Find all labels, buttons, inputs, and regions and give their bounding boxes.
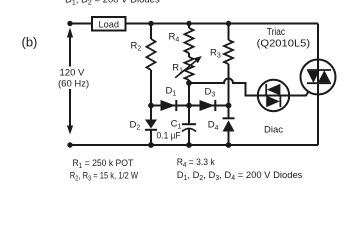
svg-text:R4 = 3.3 k: R4 = 3.3 k [177,157,215,169]
svg-text:(Q2010L5): (Q2010L5) [257,37,310,49]
svg-text:(60 Hz): (60 Hz) [58,79,89,90]
svg-text:R2, R3 = 15 k, 1/2 W: R2, R3 = 15 k, 1/2 W [70,171,138,183]
svg-text:0.1 µF: 0.1 µF [157,131,181,142]
svg-text:120 V: 120 V [60,68,85,79]
svg-text:(b): (b) [22,35,38,50]
svg-text:R1 = 250 k POT: R1 = 250 k POT [73,158,134,170]
svg-text:Diac: Diac [264,124,283,135]
svg-text:D1, D2, D3, D4 = 200 V Diodes: D1, D2, D3, D4 = 200 V Diodes [177,170,303,182]
svg-text:Load: Load [99,19,120,30]
